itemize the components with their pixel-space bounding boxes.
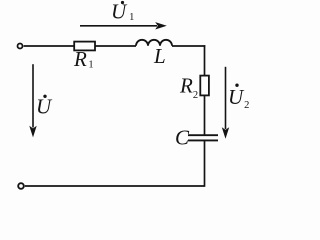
wire bottom [25, 185, 205, 187]
svg-text:C: C [175, 126, 190, 150]
dot of U [43, 95, 46, 98]
terminal bottom-left [18, 183, 24, 189]
capacitor C [188, 135, 218, 140]
svg-text:L: L [153, 44, 166, 68]
terminal top-left [18, 44, 23, 49]
svg-text:U2: U2 [228, 85, 249, 111]
resistor R2 [200, 76, 209, 96]
dot of U1 [121, 1, 124, 4]
wire top from terminal to R1 [24, 45, 74, 47]
resistor R1 [74, 42, 95, 51]
wire L to corner [172, 45, 205, 47]
dot of U2 [235, 84, 238, 87]
wire C to bottom corner [204, 140, 206, 186]
wire right vertical top [204, 45, 206, 76]
wire R2 to C [204, 95, 206, 135]
wire R1 to L [95, 45, 136, 47]
svg-text:R2: R2 [179, 74, 198, 102]
arrow U1 (top, pointing right) [80, 22, 167, 29]
arrow U (left, pointing down) [29, 64, 36, 137]
arrow U2 (right, pointing down) [222, 67, 229, 139]
inductor L [136, 40, 172, 46]
